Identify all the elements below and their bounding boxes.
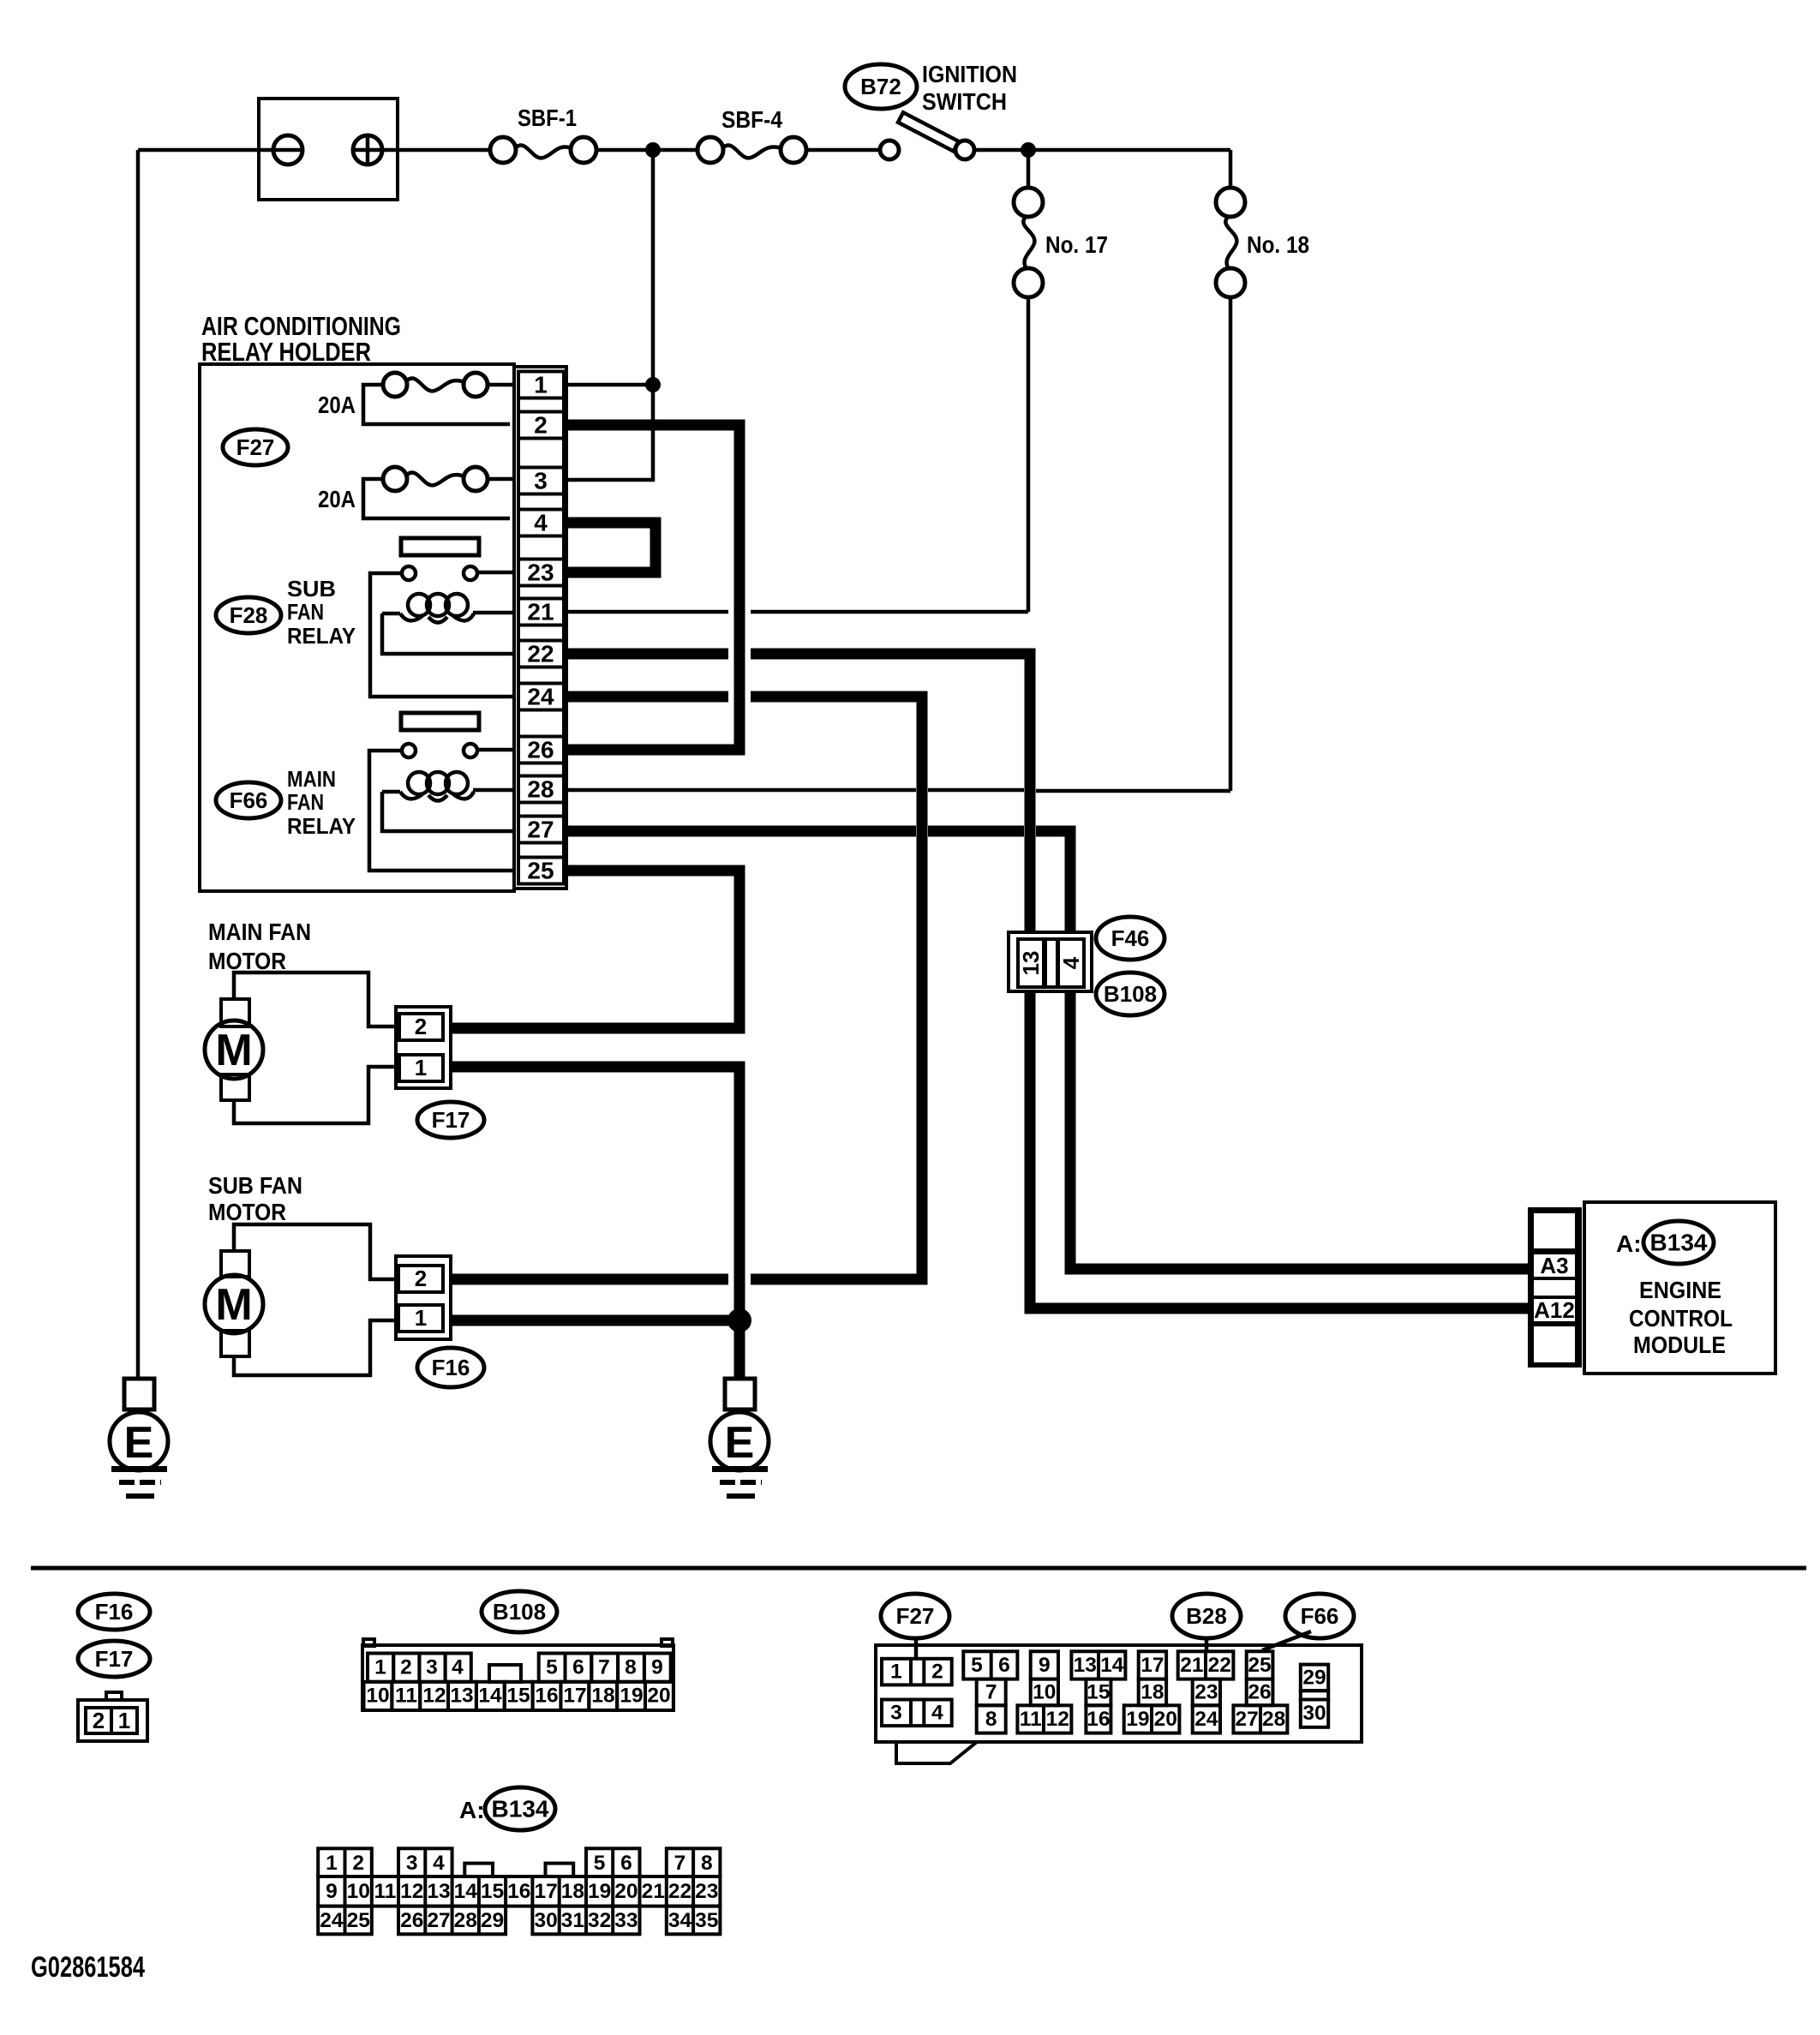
- svg-text:32: 32: [588, 1909, 611, 1932]
- wire battery negative to ground (left vertical): [136, 150, 141, 1379]
- wire main relay contact to terminal 26: [477, 748, 516, 752]
- wire terminal 1 to junction: [566, 383, 653, 387]
- svg-text:A3: A3: [1540, 1253, 1568, 1278]
- svg-text:1: 1: [118, 1708, 130, 1733]
- svg-text:13: 13: [1074, 1654, 1097, 1677]
- svg-text:13: 13: [427, 1880, 450, 1903]
- svg-text:4: 4: [931, 1702, 943, 1725]
- svg-text:22: 22: [1208, 1654, 1231, 1677]
- svg-text:26: 26: [400, 1909, 423, 1932]
- svg-text:33: 33: [614, 1909, 638, 1932]
- fuse SBF-4: [697, 106, 806, 163]
- svg-text:18: 18: [561, 1880, 584, 1903]
- svg-text:F28: F28: [230, 602, 268, 628]
- svg-text:11: 11: [374, 1880, 396, 1903]
- wire battery bus: [138, 148, 1230, 153]
- svg-text:7: 7: [985, 1681, 997, 1704]
- svg-text:8: 8: [985, 1708, 997, 1731]
- fuse No. 18: [1216, 188, 1309, 297]
- svg-text:F17: F17: [95, 1646, 134, 1672]
- sub fan relay F28: [216, 576, 356, 649]
- svg-text:15: 15: [481, 1880, 504, 1903]
- terminal strip frame: [514, 367, 566, 889]
- svg-text:17: 17: [1140, 1654, 1164, 1677]
- svg-text:SUB FAN: SUB FAN: [208, 1172, 302, 1199]
- main fan relay armature bar: [401, 713, 479, 730]
- svg-text:F27: F27: [236, 434, 275, 460]
- wire terminal 28 to fuse No.18 (thin): [565, 790, 1230, 791]
- svg-text:16: 16: [507, 1880, 530, 1903]
- svg-text:1: 1: [374, 1656, 386, 1679]
- svg-text:25: 25: [527, 858, 554, 884]
- wire terminal 21 to fuse No.17 (thin): [565, 610, 1028, 614]
- svg-text:1: 1: [415, 1305, 427, 1331]
- svg-text:22: 22: [668, 1880, 691, 1903]
- svg-text:F27: F27: [896, 1603, 935, 1629]
- svg-text:8: 8: [625, 1656, 637, 1679]
- svg-text:23: 23: [527, 560, 554, 586]
- svg-text:24: 24: [1194, 1708, 1218, 1731]
- svg-text:6: 6: [620, 1852, 632, 1875]
- svg-text:25: 25: [1248, 1654, 1271, 1677]
- svg-text:6: 6: [572, 1656, 584, 1679]
- svg-text:27: 27: [527, 817, 554, 843]
- svg-text:SUB: SUB: [287, 576, 336, 602]
- svg-text:F66: F66: [230, 787, 268, 813]
- wire sub relay coil to terminal 22: [382, 613, 516, 654]
- svg-text:16: 16: [1087, 1708, 1110, 1731]
- svg-text:21: 21: [527, 599, 554, 625]
- svg-text:E: E: [124, 1418, 154, 1468]
- svg-text:22: 22: [527, 641, 554, 667]
- svg-text:27: 27: [1235, 1708, 1258, 1731]
- svg-text:F46: F46: [1111, 925, 1150, 951]
- svg-text:4: 4: [452, 1656, 464, 1679]
- terminal strip cells: [518, 372, 564, 884]
- fuse 20A upper: [318, 373, 516, 424]
- sub fan relay armature bar: [401, 538, 479, 555]
- svg-text:MOTOR: MOTOR: [208, 948, 286, 974]
- svg-text:14: 14: [478, 1685, 502, 1708]
- svg-text:A:: A:: [1616, 1230, 1642, 1257]
- svg-text:17: 17: [534, 1880, 557, 1903]
- connector F17 main fan: [396, 1007, 484, 1138]
- svg-text:SBF-1: SBF-1: [518, 105, 577, 131]
- wire terminal 27 to ECM A3 via B108 pin 4 (thick): [565, 831, 1530, 1269]
- svg-text:28: 28: [454, 1909, 477, 1932]
- svg-text:E: E: [725, 1418, 755, 1468]
- wire bus junction down to terminal 1 and 3: [566, 150, 653, 480]
- svg-text:35: 35: [695, 1909, 718, 1932]
- svg-text:18: 18: [1140, 1681, 1164, 1704]
- wire terminal 2 to terminal 26 (thick): [565, 425, 739, 750]
- svg-text:27: 27: [427, 1909, 450, 1932]
- main fan relay F66: [216, 766, 356, 839]
- svg-text:B134: B134: [1650, 1230, 1708, 1256]
- svg-text:M: M: [215, 1026, 252, 1075]
- svg-text:4: 4: [534, 510, 548, 536]
- svg-text:RELAY: RELAY: [287, 813, 356, 839]
- svg-text:B108: B108: [1104, 981, 1157, 1007]
- svg-text:9: 9: [326, 1880, 338, 1903]
- svg-text:20: 20: [1154, 1708, 1177, 1731]
- divider line: [31, 1566, 1806, 1571]
- wire main fan motor 1 to ground (thick): [452, 1067, 739, 1379]
- svg-text:A12: A12: [1534, 1297, 1575, 1323]
- svg-text:SBF-4: SBF-4: [721, 106, 782, 133]
- svg-text:1: 1: [415, 1055, 427, 1080]
- svg-text:7: 7: [598, 1656, 610, 1679]
- svg-text:10: 10: [347, 1880, 370, 1903]
- svg-text:MODULE: MODULE: [1633, 1332, 1726, 1358]
- wire junction to fuse No.17: [1027, 150, 1031, 188]
- svg-text:24: 24: [527, 684, 554, 710]
- svg-text:2: 2: [400, 1656, 412, 1679]
- svg-text:3: 3: [534, 468, 548, 494]
- svg-text:F17: F17: [432, 1107, 470, 1133]
- sub fan relay contacts: [402, 566, 477, 580]
- air conditioning relay holder box: [200, 311, 514, 891]
- svg-text:20A: 20A: [318, 486, 356, 512]
- svg-text:G02861584: G02861584: [31, 1951, 145, 1984]
- svg-text:14: 14: [454, 1880, 478, 1903]
- wire terminal 4 to terminal 23 (thick): [565, 523, 656, 572]
- svg-text:20A: 20A: [318, 392, 356, 418]
- svg-text:M: M: [215, 1280, 252, 1330]
- svg-text:3: 3: [890, 1702, 902, 1725]
- sub fan motor: [205, 1172, 396, 1375]
- svg-text:15: 15: [506, 1685, 530, 1708]
- node junction dot ground: [727, 1308, 751, 1332]
- svg-text:11: 11: [395, 1685, 417, 1708]
- wire terminal 25 to main fan motor 2 (thick): [452, 871, 739, 1028]
- fuse 20A lower: [318, 467, 516, 518]
- connector pinout B108: [362, 1591, 674, 1710]
- svg-text:19: 19: [588, 1880, 611, 1903]
- svg-text:CONTROL: CONTROL: [1629, 1305, 1733, 1332]
- wire sub relay common to terminal 24: [370, 573, 516, 697]
- wire terminal 22 to ECM A12 via B108 pin 13 (thick): [565, 654, 1530, 1308]
- wire terminal 24 to sub fan motor 2 (thick): [452, 697, 922, 1279]
- svg-text:9: 9: [1039, 1654, 1051, 1677]
- svg-text:B28: B28: [1186, 1603, 1227, 1629]
- svg-text:MAIN: MAIN: [287, 766, 336, 792]
- svg-text:23: 23: [1194, 1681, 1218, 1704]
- svg-text:31: 31: [561, 1909, 584, 1932]
- svg-text:FAN: FAN: [287, 789, 324, 815]
- node junction dot at terminal 1: [645, 377, 661, 392]
- connector pinout F16/F17: [78, 1594, 150, 1741]
- connector pinout F27/B28/F66: [876, 1594, 1362, 1763]
- svg-text:No. 17: No. 17: [1045, 231, 1108, 258]
- svg-text:10: 10: [1033, 1681, 1056, 1704]
- svg-text:F66: F66: [1301, 1603, 1339, 1629]
- svg-text:20: 20: [614, 1880, 638, 1903]
- svg-text:20: 20: [647, 1685, 670, 1708]
- wire sub relay contact to terminal 23: [477, 571, 516, 575]
- svg-text:26: 26: [527, 737, 554, 763]
- main fan motor: [205, 919, 396, 1123]
- svg-text:29: 29: [481, 1909, 504, 1932]
- connector F27 label ellipse: [223, 429, 288, 465]
- svg-text:18: 18: [591, 1685, 614, 1708]
- main fan relay contacts: [402, 744, 477, 757]
- wire sub fan motor 1 to ground junction (thick): [452, 1315, 739, 1326]
- wire ignition to fuse No.18: [1229, 150, 1233, 188]
- battery: [259, 99, 398, 200]
- svg-text:28: 28: [1262, 1708, 1285, 1731]
- ignition switch B72: [845, 61, 1017, 159]
- svg-text:12: 12: [400, 1880, 423, 1903]
- svg-text:1: 1: [534, 372, 548, 398]
- svg-text:8: 8: [701, 1852, 713, 1875]
- svg-text:21: 21: [642, 1880, 665, 1903]
- svg-text:SWITCH: SWITCH: [922, 88, 1007, 115]
- relay coil sub fan: [382, 594, 516, 623]
- ground E center: [710, 1379, 769, 1496]
- terminal numbers: [527, 372, 554, 884]
- svg-text:30: 30: [534, 1909, 557, 1932]
- node junction dot ignition output: [1021, 142, 1036, 158]
- svg-text:MOTOR: MOTOR: [208, 1199, 286, 1225]
- svg-text:3: 3: [426, 1656, 438, 1679]
- connector F46/B108 inline: [1009, 917, 1164, 1015]
- fuse SBF-1: [490, 105, 596, 163]
- svg-text:30: 30: [1302, 1702, 1326, 1725]
- connector pinout B134: [318, 1787, 720, 1934]
- svg-text:19: 19: [620, 1685, 643, 1708]
- svg-text:25: 25: [347, 1909, 370, 1932]
- wire main relay common to terminal 25: [369, 751, 516, 871]
- svg-text:F16: F16: [95, 1599, 134, 1625]
- svg-text:B134: B134: [492, 1796, 549, 1823]
- engine control module: [1530, 1202, 1775, 1374]
- svg-text:4: 4: [433, 1852, 445, 1875]
- svg-text:1: 1: [326, 1852, 338, 1875]
- relay coil main fan: [382, 772, 516, 801]
- svg-text:13: 13: [450, 1685, 473, 1708]
- svg-text:2: 2: [415, 1014, 427, 1039]
- svg-text:A:: A:: [459, 1797, 485, 1823]
- svg-text:RELAY: RELAY: [287, 623, 356, 649]
- svg-text:2: 2: [93, 1708, 105, 1733]
- svg-text:34: 34: [668, 1909, 692, 1932]
- svg-text:2: 2: [415, 1266, 427, 1291]
- svg-text:28: 28: [527, 776, 554, 803]
- wire fuse No.17 to terminal 21: [1027, 297, 1031, 612]
- svg-text:21: 21: [1180, 1654, 1203, 1677]
- svg-text:2: 2: [534, 412, 548, 439]
- svg-text:FAN: FAN: [287, 599, 324, 625]
- svg-text:5: 5: [971, 1654, 983, 1677]
- svg-text:2: 2: [352, 1852, 364, 1875]
- svg-text:12: 12: [1046, 1708, 1069, 1731]
- svg-text:14: 14: [1100, 1654, 1124, 1677]
- svg-text:19: 19: [1126, 1708, 1149, 1731]
- svg-text:17: 17: [563, 1685, 586, 1708]
- svg-text:B108: B108: [493, 1599, 546, 1625]
- fuse No. 17: [1014, 188, 1108, 297]
- svg-text:16: 16: [535, 1685, 558, 1708]
- svg-text:RELAY HOLDER: RELAY HOLDER: [201, 337, 371, 367]
- svg-text:B72: B72: [860, 74, 901, 99]
- svg-text:26: 26: [1248, 1681, 1271, 1704]
- svg-text:4: 4: [1058, 956, 1084, 969]
- svg-text:No. 18: No. 18: [1247, 231, 1309, 258]
- svg-text:29: 29: [1302, 1666, 1326, 1689]
- svg-text:2: 2: [931, 1661, 943, 1684]
- wire main relay coil to terminal 27: [382, 792, 516, 831]
- svg-text:6: 6: [998, 1654, 1010, 1677]
- svg-text:5: 5: [546, 1656, 558, 1679]
- wire fuse No.18 to terminal 28: [1229, 297, 1233, 791]
- svg-text:7: 7: [674, 1852, 686, 1875]
- svg-text:12: 12: [422, 1685, 446, 1708]
- connector F16 sub fan: [396, 1256, 484, 1387]
- svg-text:3: 3: [406, 1852, 418, 1875]
- svg-text:13: 13: [1018, 951, 1044, 976]
- svg-text:1: 1: [890, 1661, 902, 1684]
- svg-text:MAIN FAN: MAIN FAN: [208, 919, 311, 945]
- svg-text:24: 24: [320, 1909, 344, 1932]
- svg-text:F16: F16: [432, 1355, 470, 1380]
- svg-text:11: 11: [1020, 1708, 1042, 1731]
- svg-text:ENGINE: ENGINE: [1639, 1277, 1721, 1303]
- ground E left: [110, 1379, 168, 1496]
- node junction dot SBF-1/SBF-4: [645, 142, 661, 158]
- svg-text:15: 15: [1087, 1681, 1110, 1704]
- svg-text:10: 10: [366, 1685, 389, 1708]
- svg-text:9: 9: [651, 1656, 663, 1679]
- svg-text:IGNITION: IGNITION: [922, 61, 1017, 87]
- svg-text:5: 5: [594, 1852, 606, 1875]
- svg-text:23: 23: [695, 1880, 718, 1903]
